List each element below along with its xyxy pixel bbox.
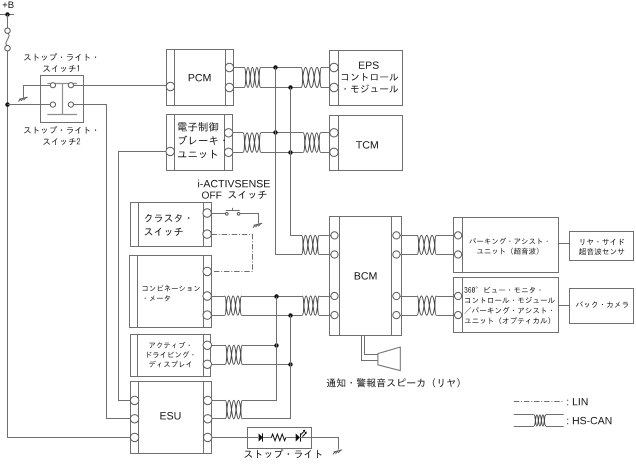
twisted pair ESU [225,400,242,418]
label stop light switch 2 [24,126,96,134]
wire S1 left to ground [24,86,51,98]
pin EPS 2 [330,83,338,91]
wire CAN row1 bottom [234,87,245,89]
junction row2 busA [273,130,277,134]
wire BCM upper-left stubs [319,235,331,237]
wire bus C lower [243,297,277,401]
legend LIN line [514,401,564,403]
switch contact bars [47,83,77,85]
legend HS-CAN text [567,417,611,424]
pin BCM right 4 [393,312,400,319]
pin PCM right 1 [225,63,233,71]
switch S2 terminals [50,102,55,107]
wire CAN row1 top [234,67,245,69]
pin TCM 2 [330,148,338,156]
wire PAU to sensor [558,243,569,245]
pin brake left [166,147,174,155]
module EPS control module [330,51,403,106]
junction row3 busC [274,294,278,298]
speaker horn [378,347,400,371]
switch i-ACTIVSENSE OFF [226,213,229,216]
ground switch S1 [19,97,28,99]
junction display busC [274,343,278,347]
wire CAN row3 top [211,296,224,298]
wire brake left to ESU [119,152,167,401]
wire CAN row5 bottom [400,315,417,317]
pin ESU left 3 [130,433,138,441]
pin PCM right 2 [225,83,233,91]
wire display top [212,345,226,347]
module back camera [570,289,634,324]
stop light box [248,428,312,449]
wire 360 to camera [558,305,569,307]
module cluster switch [131,203,212,247]
twisted pair row1 left [244,68,261,88]
wire CAN row5 top [400,296,417,298]
wire speaker feed left [362,336,378,361]
junction left bus / switch2 [5,102,9,106]
label i-ACTIVSENSE OFF switch [198,180,270,188]
junction row1 busA [273,65,277,69]
wire S1 right to PCM [74,85,167,87]
wire D1 to resistor [263,437,272,439]
junction +B [5,12,9,16]
switch S1 terminals [50,83,55,88]
switch S1/S2 box [41,76,84,123]
pin meter 3 [203,311,211,319]
fuse [5,28,10,33]
wire OFF switch to ground [240,214,259,224]
pin BCM left 2 [331,251,338,258]
wire stop light to ground [312,438,339,450]
wire CAN row2 top [233,132,243,134]
junction row1 busB [288,85,292,89]
legend HS-CAN symbol [514,414,534,416]
pin PAU 1 [455,232,462,239]
pin BCM left 1 [331,232,338,239]
pin 360 1 [455,292,462,299]
module rear side ultrasonic sensor [570,232,634,261]
pin display 1 [203,341,211,349]
wire bus D lower [243,316,291,419]
pin ESU right 2 [204,415,212,423]
pin ESU left 2 [130,415,138,423]
pin cluster 1 [203,209,211,217]
twisted pair BCM upper-left [302,235,320,254]
ground OFF switch [254,223,263,225]
wire ESU CAN top [212,400,225,402]
wire S2 left to bus [8,104,51,106]
wire bus A upper [276,68,302,255]
pin BCM left 4 [331,312,338,319]
pin display 2 [203,360,211,368]
pin BCM left 3 [331,292,338,299]
twisted pair display [225,345,242,364]
LED [296,433,300,441]
label stop light switch 1 [24,53,96,61]
pin TCM 1 [330,129,338,137]
pin EPS 1 [330,63,338,71]
module BCM [330,217,402,336]
wire display bottom [212,364,226,366]
wire ESU CAN bottom [212,418,225,420]
wire +B down to fuse [7,15,9,29]
wire CAN row4 bottom [400,254,417,256]
module PCM [167,50,234,106]
wire bus B upper [291,88,302,236]
pin BCM right 1 [393,232,400,239]
pin ESU right 1 [204,396,212,404]
wire main left bus [7,51,9,438]
twisted pair row2 right [303,133,321,153]
wire CAN row4 top [400,235,417,237]
diode D1 [259,433,263,441]
wire speaker feed right [365,336,378,355]
pin ESU left 1 [130,396,138,404]
junction row3 busD [288,313,292,317]
module TCM [330,116,403,171]
pin PAU 2 [455,251,462,258]
module 360 view monitor control module [454,278,559,333]
twisted pair row3 right [302,296,319,315]
junction display busD [288,362,292,366]
wire cluster to OFF switch [211,213,225,215]
twisted pair row5 [417,296,436,315]
legend LIN text [567,398,587,405]
pin brake right 1 [224,129,232,137]
label OFF switch line2 [202,192,222,199]
module combination meter [130,256,212,328]
pin ESU right 3 [204,433,212,441]
twisted pair row4 [417,235,436,254]
wire CAN row2 bottom [233,152,243,154]
wire +B horizontal [0,14,14,16]
pin brake right 2 [224,148,232,156]
pin BCM right 3 [393,292,400,299]
twisted pair row1 right [301,68,321,88]
pin PCM left [166,82,174,90]
pin meter 1 [203,267,211,275]
module parking assist unit ultrasonic [454,218,559,273]
module electric brake unit [167,115,233,171]
wire LIN cluster to meter [212,235,253,272]
ground stop light [334,450,343,452]
pin 360 2 [455,312,462,319]
wire S2 right to ESU [74,105,131,419]
pin cluster 2 [203,230,211,238]
twisted pair row2 left [243,133,261,153]
wire ESU to stop light [212,437,258,439]
module active driving display [131,335,211,377]
pin BCM right 2 [393,251,400,258]
twisted pair row3 left [225,296,242,315]
wire LED out [300,437,312,439]
pin meter 2 [203,292,211,300]
module ESU [131,382,212,454]
label stop light [244,449,321,458]
label speaker [327,378,460,387]
wire resistor to LED [286,437,296,439]
node +B [3,2,14,9]
wire CAN row3 bottom [211,315,224,317]
junction row2 busB [288,150,292,154]
resistor [271,434,285,441]
